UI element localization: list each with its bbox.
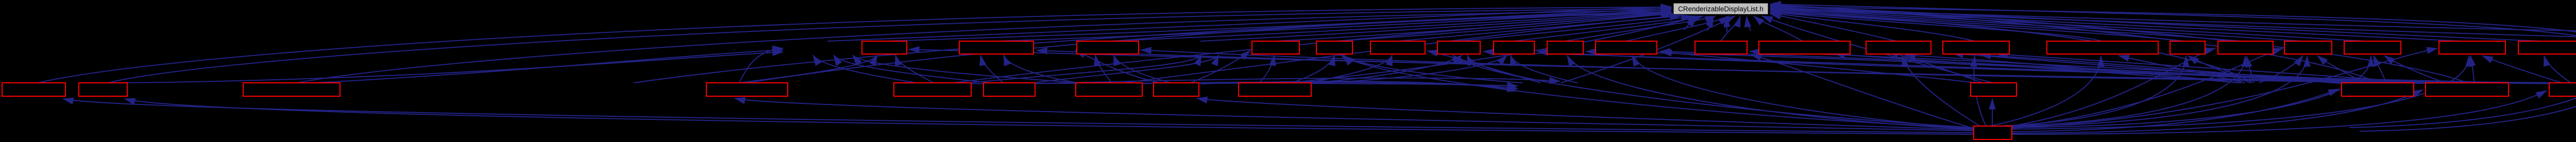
node row2 m1 bbox=[2, 83, 65, 96]
edge m13->n2R bbox=[1037, 50, 2568, 83]
edge m7->title bbox=[1123, 15, 1681, 83]
edge m9->n8b2 bbox=[1306, 55, 1507, 84]
edge m8->n3b bbox=[1114, 55, 1175, 84]
edge b1->m1b bbox=[63, 99, 1974, 133]
node row1 n6 bbox=[1370, 41, 1425, 54]
edge b1->n7b bbox=[1453, 55, 1974, 128]
edge m9->n6b bbox=[1304, 55, 1392, 84]
title node CRenderizableDisplayList.h bbox=[1673, 3, 1768, 14]
edge m5->iR2a bbox=[963, 83, 1518, 86]
edge m10->n10R bbox=[1661, 52, 1977, 83]
edge m12->n1R bbox=[909, 49, 2452, 84]
node row1 n16 bbox=[2170, 41, 2205, 54]
edge m7->n3b bbox=[1095, 55, 1113, 84]
edge n13->title bbox=[1770, 14, 1899, 42]
edge n2->title bbox=[996, 10, 1671, 41]
edge m9->n4b bbox=[1258, 55, 1274, 84]
node row2 m12 bbox=[2426, 83, 2509, 96]
edge n6->title bbox=[1398, 16, 1681, 41]
node row1 n20 bbox=[2439, 41, 2505, 54]
edge wrap2->title bbox=[1771, 7, 2576, 131]
edge m11->n10R bbox=[1659, 51, 2372, 83]
edge m9->title bbox=[1288, 16, 1698, 83]
node row1 n5 bbox=[1316, 41, 1352, 54]
edge m4->title bbox=[747, 12, 1671, 83]
node row2 m8 bbox=[1154, 83, 1199, 96]
edge iR2b->n13b bbox=[1905, 55, 2241, 83]
edge b1->n14b bbox=[1974, 56, 1986, 126]
edge b1->n20b bbox=[2012, 56, 2469, 129]
edge iR2a->n8b bbox=[1511, 55, 1578, 83]
edge iR2a->n6R bbox=[1427, 51, 1540, 83]
edge n1->title bbox=[884, 8, 1671, 41]
edge m7->iR2a bbox=[1133, 82, 1518, 88]
edge b1->n9b bbox=[1567, 56, 1974, 129]
node bottom b1 bbox=[1974, 126, 2012, 139]
edge m10->title bbox=[1762, 16, 1993, 83]
edge m11->n13x bbox=[1953, 54, 2347, 84]
edge m9->n7b2 bbox=[1298, 55, 1462, 84]
edge m12->n11R bbox=[1750, 51, 2437, 84]
edge m13->n20b bbox=[2482, 56, 2562, 83]
edge m6->n2b bbox=[980, 55, 1005, 84]
edge n21->title bbox=[1770, 6, 2552, 42]
edge b1->n13b bbox=[1902, 56, 1980, 126]
edge m6->i1b bbox=[834, 55, 999, 84]
edge m12->n20b bbox=[2470, 56, 2474, 84]
edge i1->title bbox=[827, 7, 1671, 41]
edge b1->n10b bbox=[1632, 56, 1974, 129]
edge b1->n5b bbox=[1341, 55, 1974, 128]
node row1 n7 bbox=[1437, 41, 1480, 54]
edge m5->i2b bbox=[959, 55, 1201, 84]
edge iR2a->n5b bbox=[1344, 55, 1522, 83]
edge m4->i1L bbox=[739, 48, 783, 83]
edge m2->i1L bbox=[121, 52, 783, 83]
node row1 n10 bbox=[1596, 41, 1657, 54]
edge n4->title bbox=[1276, 13, 1671, 41]
edge m7->i1b bbox=[853, 55, 1092, 84]
edge m4->n1b bbox=[739, 55, 877, 83]
edge b1->n18L bbox=[2010, 48, 2283, 127]
edge b1->m2b bbox=[125, 99, 1974, 134]
edge m11->n19b bbox=[2374, 56, 2386, 84]
node row2 m2 bbox=[79, 83, 127, 96]
edge m6->iR2at bbox=[1028, 78, 1560, 84]
edge stub2 bbox=[1707, 16, 1714, 31]
edge iR2b->n17b bbox=[2247, 57, 2254, 83]
node row2 m10 bbox=[1971, 83, 2016, 96]
edge m13->n3R bbox=[1141, 50, 2576, 84]
edge m7->n2b bbox=[1004, 55, 1084, 84]
edge n18->title bbox=[1770, 9, 2308, 42]
edge b1->m10 bbox=[1992, 99, 1993, 126]
edge m8->iR2a bbox=[1200, 81, 1518, 91]
node row1 n13 bbox=[1866, 41, 1931, 54]
edge n7->title bbox=[1459, 16, 1692, 41]
edge m12->n7R bbox=[1483, 51, 2437, 83]
node row2 m3 bbox=[243, 83, 340, 96]
edge stub1 bbox=[1684, 16, 1696, 30]
edge m13->n8R bbox=[1537, 51, 2571, 84]
edge b1->n20L bbox=[2012, 48, 2437, 128]
edge wrap1->title bbox=[1770, 4, 2576, 128]
edge n5->title bbox=[1334, 13, 1672, 41]
edge m11->title bbox=[1770, 5, 2378, 83]
edge b1->n15b bbox=[1990, 56, 2101, 126]
edge iR2b->title bbox=[1770, 12, 2252, 83]
edge m5->title bbox=[953, 14, 1673, 83]
edge m12->title bbox=[1770, 5, 2468, 83]
node row1 n19 bbox=[2344, 41, 2401, 54]
edge n11->title bbox=[1721, 16, 1740, 41]
edge b1->n16b bbox=[1999, 56, 2186, 126]
edge m3->title bbox=[292, 10, 1671, 84]
edge m5->n1b bbox=[895, 55, 935, 84]
edge b1->m12L bbox=[2012, 90, 2423, 133]
edge i2->title bbox=[1200, 12, 1671, 41]
node row1 n12 bbox=[1759, 41, 1850, 54]
edge m8->n3L bbox=[1075, 50, 1159, 83]
edge b1->n17L bbox=[2008, 48, 2215, 127]
edge b1->n19b bbox=[2012, 56, 2371, 128]
edge n19->title bbox=[1770, 8, 2372, 42]
edge m13->n21b bbox=[2544, 56, 2571, 83]
node row1 n18 bbox=[2284, 41, 2332, 54]
edge m2->title bbox=[108, 9, 1671, 83]
edge b1->m13L bbox=[2012, 91, 2547, 134]
edge b1->m8b bbox=[1197, 98, 1974, 130]
edge n8->title bbox=[1514, 16, 1703, 41]
edge iR2a->title bbox=[1561, 16, 1735, 83]
node row1 n17 bbox=[2218, 41, 2273, 54]
edge m11->n9R bbox=[1586, 51, 2349, 83]
node row2 m6 bbox=[984, 83, 1035, 96]
node row2 m5 bbox=[894, 83, 971, 96]
edge n15->title bbox=[1770, 12, 2103, 42]
node row2 m13 bbox=[2549, 83, 2576, 96]
edge n14->title bbox=[1770, 13, 1976, 42]
edge m3->i1L bbox=[292, 50, 783, 84]
node row1 n9 bbox=[1547, 41, 1583, 54]
edge iR2b->n15b bbox=[2119, 56, 2245, 83]
edge m12->n14x bbox=[1997, 54, 2439, 84]
edge iR2b->n12b bbox=[1834, 54, 2239, 83]
node row1 n8 bbox=[1494, 41, 1534, 54]
node row1 n2 bbox=[959, 41, 1033, 54]
node row2 m11 bbox=[2342, 83, 2414, 96]
edge m9->n5b bbox=[1288, 55, 1334, 84]
edge farR1->title bbox=[1770, 8, 2576, 35]
edge stub4 bbox=[1747, 16, 1751, 31]
edge n17->title bbox=[1770, 10, 2246, 42]
edge b1->n11R bbox=[1751, 55, 1974, 129]
edge n9->title bbox=[1565, 16, 1716, 41]
edge n3->title bbox=[1108, 11, 1671, 41]
node row1 n11 bbox=[1695, 41, 1747, 54]
node row1 n21 bbox=[2518, 41, 2576, 54]
edge m12->n19b bbox=[2384, 56, 2448, 84]
edge farR2->title bbox=[1770, 9, 2576, 41]
edge m1->title bbox=[33, 7, 1671, 84]
svg-text:CRenderizableDisplayList.h: CRenderizableDisplayList.h bbox=[1678, 5, 1764, 13]
edge m11->n18b2 bbox=[2317, 56, 2366, 84]
edge b1->m11L bbox=[2012, 89, 2339, 132]
edge m10->n12b bbox=[1888, 52, 1982, 83]
edge iR2b->n18b bbox=[2259, 56, 2303, 83]
edge b1->m4b bbox=[735, 98, 1974, 131]
edge m8->n4L bbox=[1188, 50, 1250, 84]
edge b1->n17b bbox=[2005, 56, 2245, 126]
node row1 n15 bbox=[2047, 41, 2158, 54]
node row2 m9 bbox=[1239, 83, 1311, 96]
edge b1->n18b bbox=[2009, 56, 2307, 127]
edge x2->title bbox=[634, 13, 1671, 83]
node row1 n1 bbox=[862, 41, 907, 54]
edge m11->n14b bbox=[1980, 55, 2354, 84]
edge iR2b->n16b bbox=[2188, 56, 2250, 83]
node row1 n3 bbox=[1077, 41, 1139, 54]
edge m6->i2b bbox=[1026, 55, 1218, 84]
node row2 m4 bbox=[706, 83, 788, 96]
edge n20->title bbox=[1770, 7, 2472, 42]
edge m5->i1b bbox=[813, 55, 922, 84]
node row2 m7 bbox=[1076, 83, 1142, 96]
edge n12->title bbox=[1754, 16, 1803, 42]
edge iR2a->n7b bbox=[1467, 55, 1552, 83]
edge n10->title bbox=[1626, 16, 1729, 41]
edge stub3 bbox=[1726, 16, 1727, 32]
edge n16->title bbox=[1770, 11, 2188, 42]
node row1 n4 bbox=[1252, 41, 1299, 54]
node row1 n14 bbox=[1943, 41, 2009, 54]
